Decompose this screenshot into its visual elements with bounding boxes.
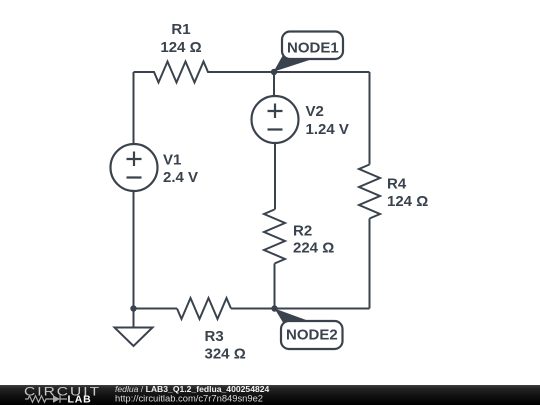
- svg-text:1.24 V: 1.24 V: [306, 121, 349, 138]
- node NODE2 flag: [275, 309, 343, 350]
- svg-text:2.4 V: 2.4 V: [163, 169, 198, 186]
- wire middle rail mid: [274, 143, 276, 210]
- wire left rail top: [133, 72, 135, 144]
- resistor R4: [359, 165, 380, 219]
- wire left rail bottom: [133, 191, 135, 309]
- resistor R3: [177, 298, 231, 319]
- svg-text:V1: V1: [163, 152, 181, 169]
- svg-text:R1: R1: [171, 21, 190, 38]
- resistor R1: [134, 62, 275, 83]
- svg-text:124 Ω: 124 Ω: [160, 39, 201, 56]
- junction node1 dot: [271, 69, 277, 75]
- junction ground dot: [130, 305, 136, 311]
- svg-text:NODE2: NODE2: [286, 327, 338, 344]
- svg-text:R4: R4: [387, 176, 407, 193]
- voltage source V1: [111, 144, 158, 191]
- svg-text:R3: R3: [205, 328, 224, 345]
- wire right rail top: [369, 72, 371, 165]
- wire middle rail bottom: [274, 264, 276, 309]
- svg-text:LAB: LAB: [68, 393, 92, 405]
- wire bottom left: [134, 308, 178, 310]
- junction node2 dot: [271, 305, 277, 311]
- svg-text:http://circuitlab.com/c7r7n849: http://circuitlab.com/c7r7n849sn9e2: [115, 393, 263, 404]
- voltage source V2: [252, 96, 299, 143]
- resistor R2: [264, 210, 285, 264]
- svg-text:V2: V2: [306, 103, 324, 120]
- node NODE1 flag: [274, 32, 344, 72]
- footer bar: [0, 385, 540, 405]
- svg-text:324 Ω: 324 Ω: [205, 345, 246, 362]
- wire top right: [274, 71, 370, 73]
- svg-text:R2: R2: [293, 222, 312, 239]
- logo resistor-diode squiggle: [25, 395, 67, 402]
- svg-text:NODE1: NODE1: [287, 40, 339, 57]
- wire right rail bottom: [369, 219, 371, 309]
- wire bottom right: [231, 308, 370, 310]
- wire middle rail top: [273, 72, 275, 96]
- svg-text:124 Ω: 124 Ω: [387, 193, 428, 210]
- ground: [115, 309, 153, 347]
- svg-text:224 Ω: 224 Ω: [293, 240, 334, 257]
